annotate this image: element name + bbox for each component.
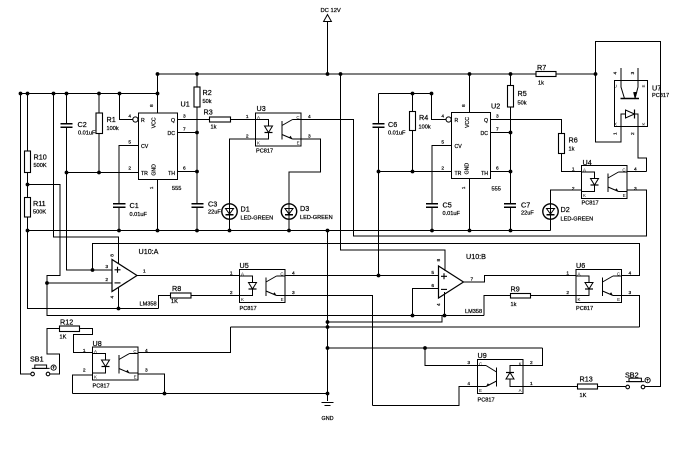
- svg-text:1: 1: [461, 186, 467, 189]
- svg-text:VCC: VCC: [152, 117, 158, 128]
- svg-text:E: E: [623, 193, 626, 198]
- svg-text:4: 4: [145, 348, 148, 354]
- svg-text:6: 6: [431, 283, 434, 289]
- svg-text:7: 7: [471, 277, 474, 283]
- svg-text:U10:A: U10:A: [139, 247, 159, 256]
- svg-text:TH: TH: [481, 171, 488, 177]
- svg-text:C2: C2: [78, 120, 87, 129]
- svg-text:DC: DC: [481, 131, 489, 137]
- svg-text:3: 3: [145, 368, 148, 374]
- svg-text:4: 4: [292, 271, 295, 277]
- svg-text:0.01uF: 0.01uF: [78, 131, 96, 137]
- svg-text:1: 1: [612, 132, 618, 135]
- svg-text:K: K: [583, 193, 586, 198]
- svg-text:1k: 1k: [211, 125, 217, 131]
- svg-text:K: K: [519, 362, 522, 367]
- svg-text:LED-GREEN: LED-GREEN: [561, 217, 594, 223]
- svg-text:E: E: [641, 84, 646, 87]
- svg-text:D1: D1: [241, 205, 250, 214]
- svg-text:R8: R8: [172, 284, 181, 293]
- svg-text:VCC: VCC: [465, 117, 471, 128]
- svg-text:3: 3: [308, 134, 311, 140]
- svg-text:PC817: PC817: [93, 384, 110, 390]
- svg-text:6: 6: [183, 166, 186, 172]
- svg-text:3: 3: [496, 114, 499, 120]
- svg-text:R13: R13: [580, 375, 593, 384]
- svg-text:R7: R7: [537, 63, 546, 72]
- svg-text:2: 2: [630, 132, 636, 135]
- svg-text:D3: D3: [300, 204, 309, 213]
- svg-text:PC817: PC817: [576, 306, 593, 312]
- svg-text:500K: 500K: [34, 163, 47, 169]
- svg-text:2: 2: [246, 134, 249, 140]
- svg-text:3: 3: [634, 186, 637, 192]
- svg-text:C7: C7: [521, 201, 530, 210]
- svg-text:U2: U2: [491, 102, 500, 111]
- svg-text:TR: TR: [455, 171, 462, 177]
- svg-text:4: 4: [308, 114, 311, 120]
- svg-text:E: E: [297, 141, 300, 146]
- svg-text:2: 2: [566, 290, 569, 296]
- svg-text:LED-GREEN: LED-GREEN: [241, 216, 274, 222]
- svg-text:3: 3: [629, 290, 632, 296]
- svg-text:PC817: PC817: [256, 149, 273, 155]
- svg-text:2: 2: [128, 166, 131, 172]
- svg-text:1k: 1k: [511, 302, 517, 308]
- svg-text:4: 4: [467, 381, 470, 387]
- svg-text:1K: 1K: [60, 335, 67, 341]
- svg-text:1: 1: [246, 114, 249, 120]
- svg-text:U5: U5: [240, 261, 249, 270]
- svg-text:GND: GND: [464, 163, 470, 175]
- svg-text:GND: GND: [152, 164, 158, 176]
- svg-text:5: 5: [431, 270, 434, 276]
- svg-text:0.01uF: 0.01uF: [388, 131, 406, 137]
- svg-text:0.01uF: 0.01uF: [443, 211, 461, 217]
- svg-text:100k: 100k: [107, 126, 119, 132]
- svg-text:1k: 1k: [538, 81, 544, 87]
- svg-text:U6: U6: [576, 261, 585, 270]
- svg-text:LM358: LM358: [140, 302, 157, 308]
- svg-text:1: 1: [143, 269, 146, 275]
- svg-text:R1: R1: [107, 115, 116, 124]
- svg-text:U8: U8: [93, 339, 102, 348]
- svg-text:LM358: LM358: [465, 309, 482, 315]
- svg-text:U3: U3: [257, 104, 266, 113]
- svg-text:C: C: [479, 362, 482, 367]
- svg-text:PC817: PC817: [582, 201, 599, 207]
- svg-text:U7: U7: [652, 84, 661, 93]
- svg-text:4: 4: [128, 114, 131, 120]
- svg-text:2: 2: [530, 360, 533, 366]
- svg-text:R12: R12: [60, 318, 73, 327]
- svg-text:K: K: [94, 375, 97, 380]
- svg-text:C: C: [133, 349, 136, 354]
- svg-text:U9: U9: [478, 351, 487, 360]
- svg-text:1k: 1k: [569, 147, 575, 153]
- svg-text:5: 5: [441, 140, 444, 146]
- svg-text:DC 12V: DC 12V: [321, 8, 341, 14]
- svg-text:C6: C6: [388, 120, 397, 129]
- svg-text:3: 3: [183, 114, 186, 120]
- svg-text:1: 1: [83, 348, 86, 354]
- svg-text:5: 5: [128, 140, 131, 146]
- svg-text:C3: C3: [208, 200, 217, 209]
- svg-text:TH: TH: [168, 171, 175, 177]
- svg-text:R2: R2: [203, 88, 212, 97]
- svg-text:A: A: [94, 349, 97, 354]
- svg-text:U1: U1: [181, 100, 190, 109]
- svg-text:1: 1: [230, 271, 233, 277]
- svg-text:D2: D2: [561, 205, 570, 214]
- svg-text:PC817: PC817: [652, 93, 669, 99]
- svg-text:1: 1: [566, 271, 569, 277]
- svg-text:SB2: SB2: [625, 371, 639, 380]
- svg-text:1K: 1K: [171, 299, 178, 305]
- svg-text:50k: 50k: [518, 101, 527, 107]
- svg-text:2: 2: [441, 166, 444, 172]
- svg-text:R: R: [141, 118, 145, 124]
- svg-text:R10: R10: [34, 153, 47, 162]
- svg-text:2: 2: [230, 290, 233, 296]
- svg-text:4: 4: [634, 167, 637, 173]
- svg-text:22uF: 22uF: [208, 210, 221, 216]
- svg-text:PC817: PC817: [240, 306, 257, 312]
- svg-text:E: E: [281, 297, 284, 302]
- svg-text:3: 3: [292, 290, 295, 296]
- svg-text:2: 2: [572, 186, 575, 192]
- svg-text:500K: 500K: [33, 210, 46, 216]
- svg-text:E: E: [134, 375, 137, 380]
- svg-text:100k: 100k: [419, 125, 431, 131]
- svg-text:0.01uF: 0.01uF: [130, 212, 148, 218]
- svg-text:8: 8: [436, 259, 442, 262]
- svg-text:4: 4: [441, 114, 444, 120]
- svg-text:U10:B: U10:B: [466, 252, 486, 261]
- svg-text:C: C: [296, 115, 299, 120]
- svg-text:CV: CV: [455, 144, 463, 150]
- svg-text:CV: CV: [141, 144, 149, 150]
- svg-text:6: 6: [496, 166, 499, 172]
- svg-text:1K: 1K: [580, 393, 587, 399]
- svg-text:E: E: [479, 388, 482, 393]
- svg-text:A: A: [613, 122, 618, 125]
- svg-text:K: K: [241, 297, 244, 302]
- svg-text:22uF: 22uF: [521, 211, 534, 217]
- svg-text:K: K: [641, 122, 646, 125]
- svg-text:K: K: [578, 297, 581, 302]
- svg-text:1: 1: [572, 167, 575, 173]
- svg-text:2: 2: [105, 277, 108, 283]
- svg-text:R5: R5: [518, 89, 527, 98]
- svg-text:LED-GREEN: LED-GREEN: [300, 215, 333, 221]
- svg-text:A: A: [241, 272, 244, 277]
- svg-text:Q: Q: [171, 118, 175, 124]
- svg-text:1: 1: [530, 381, 533, 387]
- svg-text:R9: R9: [511, 285, 520, 294]
- svg-text:A: A: [583, 168, 586, 173]
- svg-text:4: 4: [436, 303, 442, 306]
- svg-text:A: A: [257, 115, 260, 120]
- svg-text:C: C: [617, 272, 620, 277]
- svg-text:4: 4: [110, 296, 116, 299]
- svg-text:E: E: [617, 297, 620, 302]
- svg-text:555: 555: [172, 186, 181, 192]
- svg-text:DC: DC: [168, 131, 176, 137]
- svg-text:A: A: [519, 388, 522, 393]
- svg-text:3: 3: [467, 360, 470, 366]
- svg-text:8: 8: [461, 104, 467, 107]
- svg-text:U4: U4: [583, 158, 592, 167]
- svg-text:4: 4: [629, 271, 632, 277]
- svg-text:R11: R11: [33, 199, 46, 208]
- svg-text:Q: Q: [484, 118, 488, 124]
- svg-text:8: 8: [110, 254, 116, 257]
- svg-text:R6: R6: [569, 136, 578, 145]
- svg-text:PC817: PC817: [478, 398, 495, 404]
- svg-text:C5: C5: [443, 201, 452, 210]
- svg-text:7: 7: [496, 127, 499, 133]
- svg-text:1: 1: [149, 186, 155, 189]
- svg-text:7: 7: [183, 127, 186, 133]
- svg-text:R4: R4: [419, 113, 428, 122]
- svg-text:A: A: [578, 272, 581, 277]
- svg-text:C1: C1: [130, 201, 139, 210]
- svg-text:GND: GND: [322, 416, 334, 422]
- svg-text:C: C: [622, 168, 625, 173]
- svg-text:2: 2: [83, 368, 86, 374]
- svg-text:R: R: [455, 118, 459, 124]
- svg-text:4: 4: [612, 72, 618, 75]
- svg-text:3: 3: [105, 264, 108, 270]
- svg-text:555: 555: [492, 187, 501, 193]
- svg-text:TR: TR: [141, 171, 148, 177]
- svg-text:3: 3: [630, 72, 636, 75]
- svg-text:R3: R3: [204, 108, 213, 117]
- svg-text:SB1: SB1: [30, 355, 44, 364]
- svg-text:C: C: [613, 84, 618, 87]
- svg-text:8: 8: [149, 104, 155, 107]
- svg-text:50k: 50k: [203, 99, 212, 105]
- svg-text:K: K: [257, 141, 260, 146]
- svg-text:C: C: [280, 272, 283, 277]
